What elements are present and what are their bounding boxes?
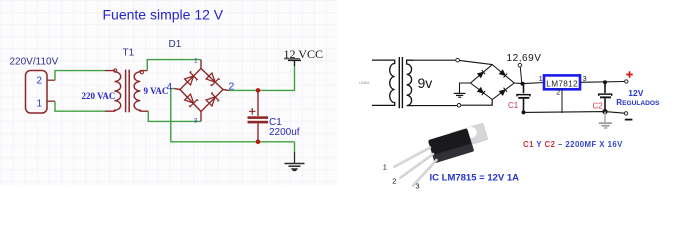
- svg-text:C1 Y C2 – 2200MF X 16V: C1 Y C2 – 2200MF X 16V: [523, 140, 623, 149]
- wire bridge pin4 to ground rail: [171, 89, 295, 142]
- wire bridge pin2 to C1 and VCC: [229, 61, 295, 91]
- svg-text:C1: C1: [508, 101, 519, 110]
- svg-text:1: 1: [383, 163, 387, 172]
- supply symbol 12 VCC: [284, 47, 323, 66]
- bridge D1 diode top-right: [205, 72, 219, 86]
- bridge D1 diode bottom-right: [205, 92, 219, 106]
- test point 12,69V: [507, 53, 542, 84]
- plus sign red: [626, 71, 633, 78]
- transformer T1 primary polarity dot: [114, 69, 117, 72]
- bottom rail: [524, 112, 625, 114]
- svg-text:12,69V: 12,69V: [507, 53, 542, 64]
- wire transformer secondary top to bridge pin1: [147, 60, 201, 71]
- svg-text:Fuente simple 12 V: Fuente simple 12 V: [103, 7, 224, 23]
- svg-text:2: 2: [392, 176, 396, 185]
- wire2 bridge right vertex to regulator: [514, 83, 544, 84]
- bridge2 diode bottom-right: [499, 88, 507, 96]
- junction node top: [256, 88, 261, 93]
- wire2 secondary bottom to bridge: [412, 105, 457, 107]
- svg-text:12V: 12V: [628, 88, 643, 98]
- svg-text:2: 2: [37, 76, 43, 87]
- svg-text:2: 2: [556, 90, 560, 97]
- transformer2 primary winding: [372, 60, 395, 105]
- wire2 regulator out to plus terminal: [581, 81, 625, 84]
- svg-text:1: 1: [194, 57, 198, 64]
- junction node bottom: [256, 140, 261, 145]
- ground symbol left schematic: [285, 152, 305, 171]
- svg-text:4: 4: [167, 81, 173, 93]
- bridge D1 diode bottom-left: [184, 93, 198, 107]
- wire2 secondary top to bridge: [412, 59, 456, 61]
- TO-220 legs: [395, 147, 437, 185]
- svg-text:220V/110V: 220V/110V: [10, 56, 59, 67]
- svg-text:9v: 9v: [418, 75, 433, 91]
- svg-text:D1: D1: [169, 39, 182, 50]
- svg-text:IC LM7815 = 12V 1A: IC LM7815 = 12V 1A: [430, 173, 520, 184]
- connector pin 2 stub: [47, 79, 55, 81]
- transformer T1 primary winding: [105, 71, 121, 112]
- svg-text:3: 3: [415, 181, 419, 190]
- svg-text:REGULADOS: REGULADOS: [616, 98, 660, 107]
- svg-text:LM7812: LM7812: [546, 79, 578, 88]
- transformer2 core: [399, 57, 402, 108]
- bridge2 diamond: [471, 65, 515, 100]
- bridge D1 diode top-left: [184, 71, 198, 85]
- plus terminal circle: [625, 80, 628, 83]
- transformer T1 secondary winding: [134, 71, 148, 112]
- capacitor C1: [248, 90, 269, 141]
- svg-text:1: 1: [37, 99, 43, 110]
- wire2 regulator pin2 down: [561, 89, 563, 113]
- svg-text:T1: T1: [123, 48, 135, 59]
- transformer T1 core: [126, 70, 130, 113]
- junction dot rail C2: [602, 109, 607, 114]
- terminal circle bottom: [457, 104, 461, 108]
- terminal circle top: [456, 58, 460, 62]
- svg-text:2200uf: 2200uf: [269, 127, 300, 138]
- bridge rectifier D1 body: [175, 60, 230, 122]
- ground symbol bridge left: [454, 93, 466, 97]
- svg-text:C2: C2: [593, 102, 604, 111]
- minus sign: [625, 119, 633, 121]
- wire transformer secondary bottom to bridge pin3: [148, 111, 201, 121]
- regulator LM7812 box: [544, 75, 580, 89]
- transformer T1 secondary polarity dot: [140, 71, 143, 74]
- connector pin 1 stub: [47, 100, 55, 102]
- connector X1 body: [26, 71, 48, 114]
- wire connector pin1 to transformer primary bottom: [55, 101, 105, 111]
- TO-220 package photo: [428, 123, 488, 163]
- wire ground stub: [294, 142, 296, 152]
- svg-text:2: 2: [229, 81, 235, 93]
- svg-text:9 VAC: 9 VAC: [144, 86, 169, 96]
- wire2 circle to bridge bottom vertex: [461, 100, 492, 106]
- wire2 bridge left vertex to ground: [460, 83, 471, 93]
- junction dot rail C1: [522, 110, 526, 114]
- junction dot C2 top: [603, 80, 607, 84]
- schematic grid background: [0, 0, 337, 186]
- wire connector pin2 to transformer primary top: [55, 71, 105, 81]
- wire2 circle to bridge top vertex: [459, 60, 492, 64]
- ground symbol C2: [599, 112, 612, 128]
- svg-text:220 VAC: 220 VAC: [82, 91, 116, 101]
- transformer2 secondary winding: [407, 60, 413, 105]
- svg-text:LINEA: LINEA: [359, 81, 370, 85]
- junction dot C1 top: [521, 82, 525, 86]
- capacitor2 C1: [517, 84, 530, 113]
- bridge2 diode bottom-left: [478, 88, 486, 96]
- svg-text:3: 3: [194, 118, 198, 125]
- capacitor2 C2: [599, 82, 612, 111]
- bridge2 diode top-left: [478, 70, 486, 78]
- svg-text:1: 1: [539, 76, 543, 83]
- minus terminal circle: [624, 112, 627, 115]
- bridge2 diode top-right: [499, 70, 507, 78]
